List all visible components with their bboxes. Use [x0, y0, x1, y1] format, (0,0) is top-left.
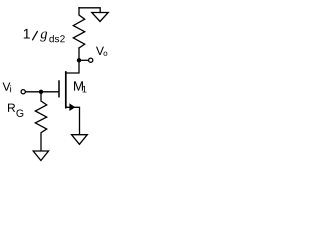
- transistor M1 channel bar: [65, 72, 67, 108]
- wire top to ground stub: [79, 8, 100, 13]
- label M1: [74, 81, 87, 92]
- resistor RG: [35, 92, 46, 151]
- wire Vi to gate: [26, 91, 58, 93]
- label 1/gds2: [24, 29, 65, 42]
- ground top-right: [92, 13, 108, 22]
- label slash of 1/gds2: [33, 31, 38, 39]
- source arrow of M1: [70, 104, 75, 111]
- ground bottom-left: [33, 151, 48, 161]
- label RG: [8, 104, 23, 117]
- terminal circle Vo: [89, 58, 93, 62]
- junction node at gate wire: [39, 90, 43, 94]
- junction node below resistor: [77, 58, 81, 62]
- resistor 1/gds2: [73, 8, 84, 48]
- terminal circle Vi: [21, 90, 25, 94]
- source wire of M1: [66, 107, 80, 134]
- label Vi: [3, 82, 12, 92]
- ground bottom-right: [72, 135, 88, 145]
- wire resistor bottom to drain: [66, 48, 79, 73]
- label Vo: [96, 47, 107, 56]
- transistor M1 gate bar: [58, 81, 60, 97]
- wire node to Vo terminal: [79, 59, 88, 61]
